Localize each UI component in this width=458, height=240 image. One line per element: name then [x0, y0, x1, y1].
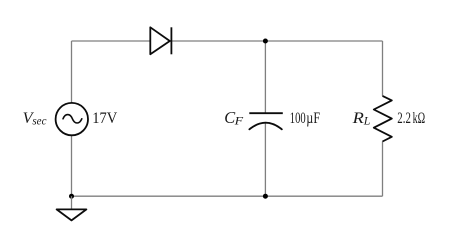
svg-text:17V: 17V	[92, 110, 117, 127]
resistor RL (zigzag)	[374, 96, 392, 142]
svg-text:F: F	[234, 114, 244, 128]
wire right vertical lower (resistor bottom to corner)	[382, 142, 384, 197]
label CF	[224, 108, 244, 128]
node junction dot bottom-middle (capacitor bottom)	[263, 194, 268, 199]
wire right vertical upper (to resistor top)	[382, 41, 384, 96]
wire left vertical lower (source bottom to ground node)	[71, 136, 73, 196]
svg-text:2.2: 2.2	[397, 110, 411, 127]
diode D1	[150, 27, 171, 54]
wire top-left horizontal (source to diode anode)	[72, 40, 151, 42]
label 17V	[92, 110, 117, 127]
svg-text:µF: µF	[306, 110, 320, 127]
node junction dot top (diode/capacitor)	[263, 39, 268, 44]
label Vsec	[23, 109, 48, 128]
wire capacitor branch upper	[264, 41, 266, 113]
svg-text:R: R	[352, 109, 364, 127]
ground	[57, 196, 87, 220]
label 2.2kOhm	[397, 110, 425, 127]
voltage source Vsec (AC source circle with sine)	[56, 103, 88, 135]
label 100uF	[290, 110, 320, 127]
svg-text:L: L	[363, 114, 371, 128]
capacitor CF (polarized, curved bottom plate)	[249, 113, 282, 129]
svg-text:sec: sec	[32, 114, 47, 128]
wire left vertical upper (corner to source top)	[71, 41, 73, 102]
svg-text:100: 100	[290, 110, 306, 127]
svg-text:kΩ: kΩ	[413, 110, 426, 127]
label RL	[352, 109, 371, 128]
wire top-right horizontal (diode cathode to top-right corner)	[171, 40, 382, 42]
wire bottom horizontal	[72, 195, 383, 197]
wire capacitor branch lower	[264, 124, 266, 197]
node junction dot bottom-left (ground node)	[69, 194, 74, 199]
